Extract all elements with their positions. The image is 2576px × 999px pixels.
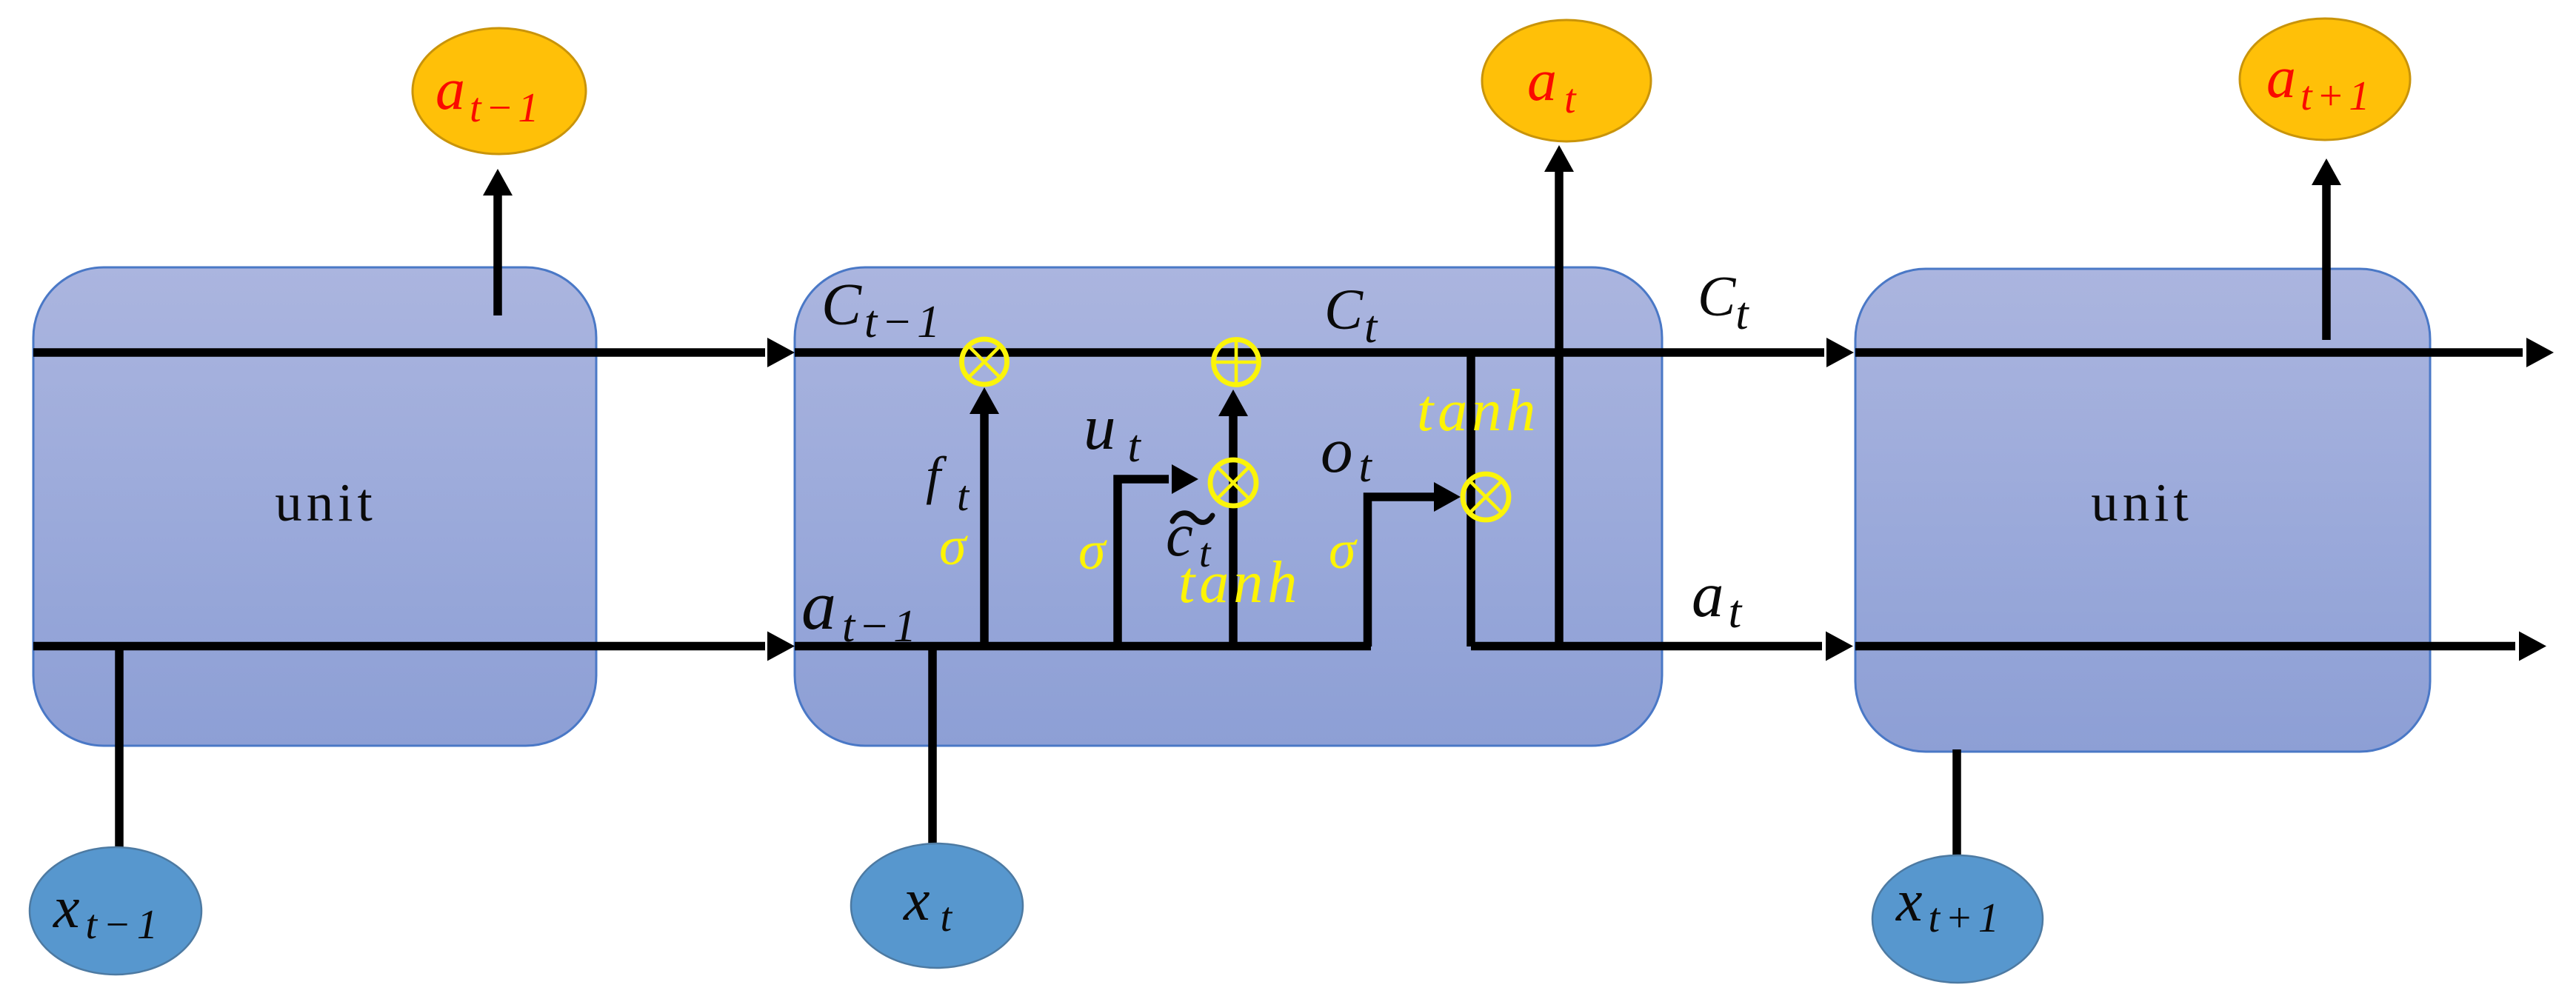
wire C cell-state through right box bbox=[1855, 348, 2523, 357]
arrow c-tilde through multiply up to plus node bbox=[1229, 415, 1238, 646]
arrow f_t forget gate bbox=[980, 412, 989, 646]
svg-text:unit: unit bbox=[275, 472, 377, 532]
arrow a_{t+1} output up from right box bbox=[2322, 183, 2331, 340]
svg-text:σ: σ bbox=[1329, 520, 1358, 581]
arrow o_t output gate elbow bbox=[1368, 497, 1436, 646]
node a_{t+1} ellipse bbox=[2240, 19, 2410, 140]
wire x_{t-1} input into left box bbox=[115, 642, 124, 848]
node a_{t-1} ellipse bbox=[413, 28, 586, 154]
svg-text:tanh: tanh bbox=[1417, 378, 1540, 444]
arrow a_{t-1} output up from left box bbox=[493, 193, 502, 315]
svg-text:tanh: tanh bbox=[1178, 550, 1301, 615]
unit box right bbox=[1855, 269, 2430, 752]
node x_t ellipse bbox=[851, 843, 1023, 968]
node x_{t-1} ellipse bbox=[30, 847, 201, 975]
arrow a_t output up bbox=[1555, 170, 1564, 646]
unit box left bbox=[33, 267, 596, 746]
arrow u_t update gate elbow bbox=[1118, 479, 1169, 646]
wire x_t input into middle box bbox=[928, 646, 937, 844]
tilde accent over c bbox=[1172, 513, 1212, 523]
wire a hidden-state through right box bbox=[1855, 642, 2515, 651]
svg-text:unit: unit bbox=[2091, 472, 2193, 532]
svg-text:Ct: Ct bbox=[1698, 264, 1749, 339]
wire a hidden-state middle box right part bbox=[1471, 642, 1822, 651]
wire C cell-state through middle box bbox=[795, 348, 1824, 357]
svg-text:at: at bbox=[1692, 558, 1744, 638]
svg-text:σ: σ bbox=[1078, 521, 1107, 581]
node a_t ellipse bbox=[1482, 20, 1651, 141]
node multiply (update x c-tilde) bbox=[1210, 460, 1256, 506]
wire C cell-state through left box bbox=[33, 348, 765, 357]
unit box middle (LSTM cell) bbox=[795, 267, 1662, 746]
wire tanh branch from C_t down bbox=[1466, 353, 1475, 646]
wire a hidden-state middle box left part bbox=[795, 642, 1371, 651]
wire x_{t+1} input into right box bbox=[1952, 749, 1961, 855]
wire a hidden-state through left box bbox=[33, 642, 765, 651]
node add on C line bbox=[1214, 340, 1259, 385]
node x_{t+1} ellipse bbox=[1872, 855, 2043, 983]
svg-text:σ: σ bbox=[939, 516, 968, 577]
node multiply (forget) on C line bbox=[962, 339, 1007, 384]
node multiply (output gate) bbox=[1463, 474, 1509, 520]
